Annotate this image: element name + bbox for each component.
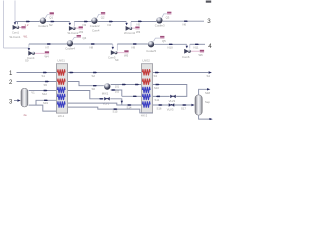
svg-text:S4: S4	[207, 74, 211, 78]
svg-text:N11: N11	[194, 46, 199, 50]
wire K3 to cooler E3	[131, 21, 156, 23]
svg-text:W6: W6	[199, 53, 204, 57]
wire HX1 lower out under HX2	[68, 107, 153, 113]
svg-text:Q1: Q1	[49, 16, 53, 20]
arrowhead liquid out	[209, 118, 212, 120]
wire E4 to K5	[73, 43, 112, 45]
energy flag Q4	[77, 35, 81, 38]
wire stream 1 out	[153, 72, 209, 74]
stream arrow N6	[184, 20, 188, 21]
svg-text:Q3: Q3	[166, 15, 170, 19]
energy flag W-Com6	[200, 50, 204, 53]
stream arrow S10a	[156, 84, 160, 85]
wire VLV1 down to HX2 feed	[110, 99, 122, 105]
wire stream 1 HX1 to HX2	[68, 72, 142, 74]
cooler E3	[156, 17, 162, 23]
svg-text:VLV2: VLV2	[169, 99, 176, 103]
svg-text:Com1: Com1	[12, 30, 19, 34]
wire riser from K3	[130, 22, 132, 27]
wire E2 to K3	[98, 21, 127, 23]
svg-text:Sep: Sep	[205, 100, 210, 104]
stream arrow S1b	[70, 72, 74, 73]
wire HX1 out to HX2 feed	[68, 103, 142, 105]
stream arrow N8	[91, 43, 95, 44]
wire E5 to K6	[154, 43, 187, 45]
svg-text:S15: S15	[113, 110, 118, 114]
svg-text:Q5: Q5	[162, 39, 166, 43]
stream arrow S16b	[183, 104, 187, 105]
stream arrow S5b	[93, 85, 97, 86]
stream arrow S5a	[45, 81, 49, 82]
energy flag Q1	[50, 12, 54, 15]
svg-text:Cooler2: Cooler2	[90, 24, 100, 28]
stream arrow S8a	[112, 89, 116, 90]
stream arrow N10	[169, 44, 173, 45]
stream arrow N5	[138, 21, 142, 22]
svg-text:Cooler3: Cooler3	[155, 24, 165, 28]
energy elbow Q3	[162, 14, 167, 18]
wire V1 top into HX1	[29, 90, 57, 92]
wire mixer to HX2 hot	[111, 84, 142, 86]
energy line W4	[35, 52, 45, 54]
svg-text:W2: W2	[79, 30, 84, 34]
stream arrow S1d	[155, 72, 159, 73]
wire E3 to product 3	[163, 20, 204, 22]
stream arrow S10b	[156, 96, 160, 97]
svg-text:Q2: Q2	[101, 16, 105, 20]
separator vessel V2	[195, 95, 202, 115]
stream arrow S14	[128, 104, 132, 105]
arrowhead into compressor K5	[112, 47, 115, 50]
svg-text:N9: N9	[132, 45, 136, 49]
svg-text:N10: N10	[168, 46, 174, 50]
wire stub into K5	[112, 44, 114, 49]
valve VLV1	[104, 97, 110, 101]
energy line W5	[117, 52, 124, 54]
stream arrow S1c	[93, 72, 97, 73]
wire K6 to product 4	[190, 43, 205, 45]
stream arrow N4	[109, 21, 113, 22]
svg-text:S5: S5	[44, 83, 48, 87]
heat exchanger HX1	[56, 64, 67, 113]
svg-text:S6: S6	[92, 87, 96, 91]
arrowhead into compressor K6	[186, 46, 189, 49]
energy flag W-Com3	[135, 27, 139, 30]
svg-text:S11: S11	[155, 98, 160, 102]
energy elbow Q4	[72, 37, 76, 40]
svg-text:S19: S19	[43, 101, 48, 105]
wire stream 3 into V1	[14, 100, 17, 102]
energy elbow Q2	[97, 14, 101, 18]
energy line W1	[19, 27, 21, 29]
svg-text:S9: S9	[115, 58, 119, 62]
svg-text:LNG2: LNG2	[143, 59, 151, 63]
svg-text:Com6: Com6	[182, 55, 190, 59]
stream arrow S7a	[122, 84, 126, 85]
svg-text:Com4: Com4	[92, 28, 100, 32]
energy flag W-Com4	[45, 51, 49, 54]
arrowhead into compressor K4	[28, 48, 31, 51]
svg-text:S12: S12	[42, 92, 47, 96]
energy flag W-Com2	[79, 26, 83, 29]
svg-text:S16: S16	[157, 107, 162, 111]
energy line W3	[132, 27, 135, 29]
cooler E4	[67, 40, 73, 46]
arrowhead stream 1 out	[209, 71, 212, 73]
energy flag Q2	[101, 12, 105, 15]
svg-text:Cooler4: Cooler4	[65, 47, 75, 51]
svg-text:S17: S17	[181, 107, 186, 111]
wire separator liquid out	[199, 115, 210, 119]
compressor K1	[13, 25, 20, 30]
wire stream 1 into HX1	[17, 72, 57, 74]
arrowhead stream 3	[17, 99, 20, 101]
wire K4 to cooler E4	[29, 43, 67, 45]
svg-text:S0: S0	[25, 59, 29, 63]
svg-text:S10: S10	[154, 86, 159, 90]
stream arrow N11	[195, 44, 199, 45]
energy elbow Q1	[45, 15, 49, 18]
compressor K2	[69, 26, 76, 31]
stream arrow N7	[47, 43, 51, 44]
wire HX1 out to VLV1	[68, 91, 104, 99]
wire stub into K3	[126, 22, 128, 25]
svg-text:1,2: 1,2	[25, 23, 29, 27]
valve VLV2	[170, 95, 176, 99]
energy flag W-Com1	[21, 26, 25, 29]
compressor K6	[184, 49, 191, 54]
arrowhead into compressor K2	[69, 23, 72, 26]
stream arrow S8b	[133, 96, 137, 97]
wire riser from K5	[116, 44, 118, 51]
flash vessel V1	[21, 88, 28, 107]
wire E1 to K2	[46, 21, 70, 23]
compressor K5	[111, 50, 118, 55]
wire K5 to cooler E5	[117, 43, 148, 45]
cooler E2	[91, 18, 97, 24]
wire stream 2 into HX1	[17, 81, 57, 83]
stream arrow S13	[99, 98, 103, 99]
svg-text:W-Com3: W-Com3	[124, 31, 135, 35]
svg-text:Cooler1: Cooler1	[38, 24, 48, 28]
svg-text:W5: W5	[124, 54, 129, 58]
svg-text:N5: N5	[137, 23, 141, 27]
wire stub into K2	[69, 22, 71, 25]
svg-text:Cooler5: Cooler5	[146, 49, 156, 53]
stream arrow N1	[26, 21, 30, 22]
wire V1 bottom into HX1	[29, 105, 57, 111]
stream arrow S7b	[135, 84, 139, 85]
wire mixer branch down	[111, 90, 122, 96]
svg-text:LNG1: LNG1	[58, 59, 66, 63]
energy flag W-Com5	[124, 50, 128, 53]
svg-text:N4: N4	[108, 23, 112, 27]
svg-text:S2: S2	[92, 74, 96, 78]
wire stream 2 HX1 to mixer	[68, 82, 104, 86]
stream arrow N2	[51, 21, 55, 22]
wire feed riser K1	[14, 1, 16, 25]
svg-text:S3: S3	[154, 74, 158, 78]
svg-text:HX-1: HX-1	[58, 114, 65, 118]
wire stub into K6	[186, 44, 188, 48]
svg-text:W4: W4	[45, 55, 50, 59]
svg-text:W1: W1	[24, 35, 28, 39]
svg-text:S1: S1	[42, 74, 46, 78]
label cropped top right	[206, 1, 211, 3]
svg-text:MIX1: MIX1	[102, 92, 109, 96]
svg-text:N3: N3	[83, 23, 87, 27]
svg-text:HX-2: HX-2	[141, 114, 148, 118]
mixer B1	[104, 83, 110, 89]
wire K1 to cooler E1	[15, 22, 40, 25]
svg-text:S18: S18	[205, 91, 210, 95]
heat exchanger HX2	[141, 64, 152, 113]
stream arrow N9	[133, 43, 137, 44]
cooler E5	[148, 41, 154, 47]
svg-text:N7: N7	[46, 45, 50, 49]
arrowhead into separator	[191, 104, 194, 106]
arrowhead vapor out	[207, 88, 210, 90]
svg-text:W3: W3	[136, 30, 141, 34]
wire VLV2 into HX2	[153, 95, 170, 97]
stream arrow S15	[114, 108, 118, 109]
stream arrow S1a	[43, 72, 47, 73]
svg-text:101: 101	[115, 84, 120, 88]
energy flag Q5	[160, 36, 164, 39]
svg-text:N6: N6	[183, 23, 187, 27]
wire V1 liquid riser into HX1	[36, 100, 56, 105]
wire HX2 hot out recycle	[153, 85, 187, 97]
arrowhead into compressor K1	[14, 22, 17, 25]
wire riser from K6	[189, 44, 191, 48]
wire separator vapor out	[199, 89, 207, 94]
wire HX2 out to separator	[153, 104, 192, 106]
svg-text:W-Com1: W-Com1	[10, 35, 21, 39]
stream arrow N3	[84, 21, 88, 22]
cooler E1	[40, 18, 46, 24]
arrowhead into compressor K3	[125, 23, 128, 26]
svg-text:N8: N8	[90, 45, 94, 49]
stream arrow S19	[44, 100, 48, 101]
energy elbow Q5	[153, 38, 160, 41]
compressor K4	[28, 51, 35, 56]
arrowhead VLV1 branch	[121, 101, 124, 104]
compressor K3	[126, 26, 133, 31]
svg-text:VLV3: VLV3	[167, 108, 174, 112]
energy line W6	[191, 50, 200, 52]
stream arrow S16a	[159, 104, 163, 105]
svg-text:V1: V1	[31, 91, 35, 95]
svg-text:N2: N2	[49, 23, 53, 27]
svg-text:W-Com2: W-Com2	[68, 31, 79, 35]
stream arrow S12	[44, 90, 48, 91]
wire K2 to cooler E2	[74, 21, 91, 23]
wire feed riser left	[3, 1, 5, 49]
energy line W2	[76, 27, 79, 29]
svg-text:Q4: Q4	[83, 36, 87, 40]
wire branch into HX2 cold	[122, 95, 142, 97]
wire stub into K4	[28, 44, 30, 50]
svg-text:3: 3	[207, 18, 211, 25]
energy flag Q3	[167, 12, 171, 15]
wire riser from K2	[73, 22, 75, 27]
svg-text:4: 4	[208, 43, 212, 50]
valve VLV3	[169, 103, 175, 107]
wire feed into K4	[4, 47, 29, 49]
